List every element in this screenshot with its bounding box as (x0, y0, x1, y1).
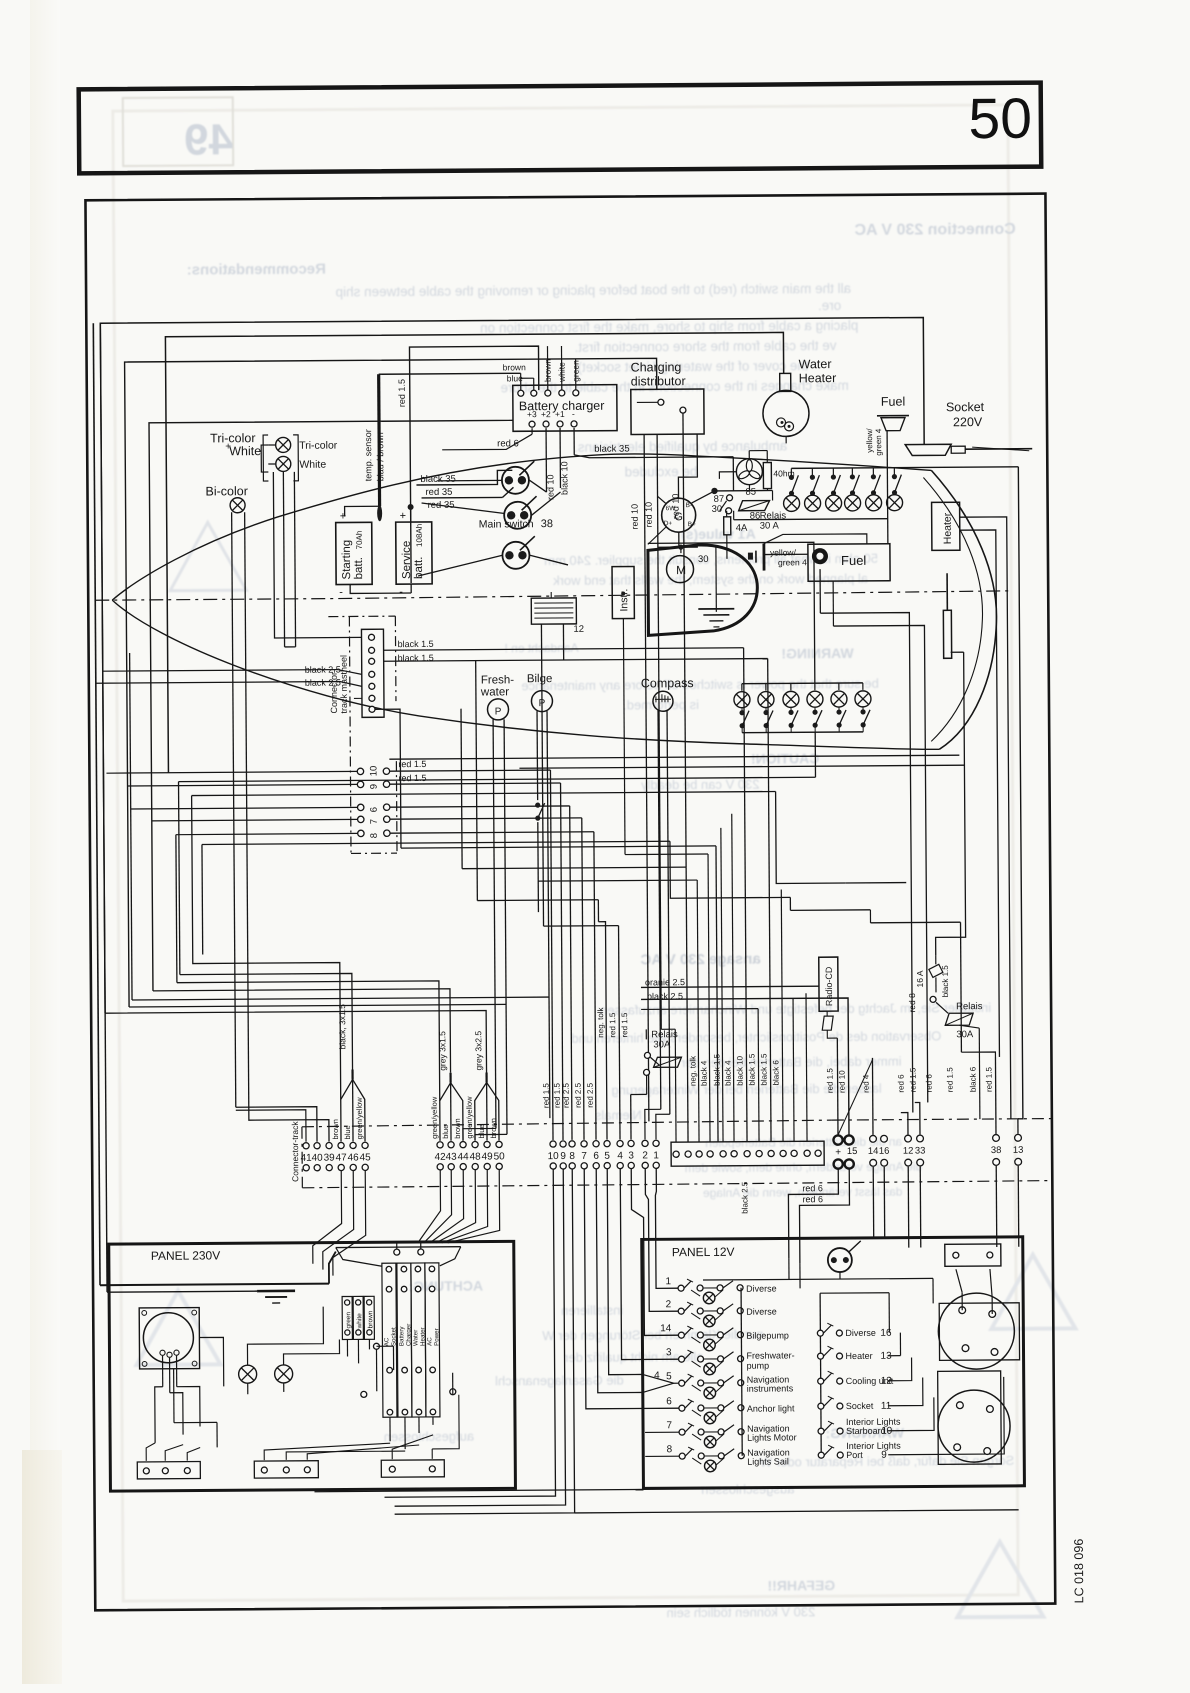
switch blade (824, 1398, 832, 1406)
wire (452, 1373, 454, 1395)
wire lamp tap (692, 1385, 701, 1391)
svg-text:-: - (572, 409, 575, 419)
svg-text:blue: blue (441, 1125, 450, 1139)
wire stub lamp2-5 (838, 683, 840, 690)
wire relay to terminal 3 (631, 1093, 647, 1095)
wire 14 down (872, 1167, 874, 1238)
wire red6 into panel (788, 1258, 790, 1279)
track terminal 48 bottom (472, 1163, 478, 1169)
wire stub lamp1-6 (893, 468, 895, 475)
wire (832, 581, 834, 626)
svg-text:red 10: red 10 (644, 502, 654, 528)
wire (170, 1393, 183, 1435)
svg-text:Port: Port (846, 1450, 863, 1460)
wire (530, 555, 568, 565)
panel lamp 7 (704, 1436, 716, 1448)
compass (653, 691, 673, 711)
lamp deck 5 (866, 495, 882, 511)
wire lamp tap (691, 1290, 700, 1296)
svg-text:M: M (676, 563, 686, 577)
bus pin (737, 1285, 743, 1291)
wire block pin1 up (674, 1029, 677, 1142)
wire (625, 853, 708, 856)
svg-text:Starting: Starting (341, 540, 353, 580)
wire (645, 1029, 647, 1039)
track terminal 41 bottom (303, 1165, 309, 1171)
svg-text:pump: pump (747, 1361, 770, 1371)
svg-text:9: 9 (369, 784, 380, 789)
wire radio fuse to + (827, 1030, 837, 1038)
terminal 38 top (993, 1135, 1000, 1142)
wire 38 down (995, 1166, 998, 1247)
track terminal 6 bottom (593, 1163, 599, 1169)
wire bus2 bottom (129, 1004, 506, 1007)
svg-text:Socket: Socket (946, 400, 985, 414)
svg-text:108Ah: 108Ah (415, 524, 424, 547)
svg-text:+: + (225, 441, 231, 452)
wire strip down (346, 1339, 348, 1356)
switch blade (684, 1328, 691, 1335)
bus pin (738, 1380, 744, 1386)
charger pin +1 (557, 421, 563, 427)
bus pin (738, 1453, 744, 1459)
lamp bi-color (230, 498, 245, 513)
terminal (184, 1468, 190, 1474)
wire green up (575, 359, 577, 390)
svg-text:Socket: Socket (846, 1401, 874, 1411)
switch deck lamp 2 (810, 475, 820, 496)
switch pin (678, 1285, 684, 1291)
battery post (956, 1402, 963, 1409)
svg-text:red 35: red 35 (425, 487, 452, 498)
svg-text:Heater: Heater (846, 1351, 873, 1361)
track terminal 5 bottom (604, 1163, 610, 1169)
wire isolator to tank top (764, 534, 867, 545)
wire lamp tap (715, 1313, 723, 1320)
masthead connector block (361, 629, 384, 717)
switch pin (697, 1332, 703, 1338)
wire black2.5 pin4 (103, 669, 362, 676)
switch deck lamp 5 (871, 474, 881, 495)
wire block pin12 up (806, 993, 807, 1141)
switch pin (717, 1332, 723, 1338)
track terminal 46 top (350, 1142, 356, 1148)
svg-text:WARNING!: WARNING! (781, 645, 853, 662)
boat hull sheer line upper (111, 452, 932, 600)
wire instr down (623, 619, 625, 855)
water heater terminal a (776, 418, 785, 427)
svg-text:85: 85 (745, 487, 756, 498)
terminal (143, 1468, 149, 1474)
wire (392, 1346, 394, 1370)
wire black1.5 pin2 (384, 648, 744, 651)
svg-text:+2: +2 (541, 409, 551, 419)
wire 9 to bottom run (392, 1169, 565, 1506)
wire (703, 1287, 720, 1289)
block pin 3 (696, 1151, 702, 1157)
wire 9 to track (390, 783, 561, 784)
distributor pin 1 (658, 399, 664, 405)
svg-text:Water: Water (799, 357, 832, 371)
wire 33 feed (915, 1102, 920, 1134)
wire 6 (390, 806, 570, 807)
masthead pin 1 (368, 634, 374, 640)
fuel sender rod (946, 573, 948, 610)
track terminal 50 top (496, 1141, 502, 1147)
bus pin (738, 1356, 744, 1362)
connector track dash left (301, 1127, 303, 1188)
wire mid a (461, 709, 462, 869)
bilge float switch (535, 803, 545, 821)
svg-text:50: 50 (494, 1151, 506, 1162)
svg-text:black 6: black 6 (969, 1066, 978, 1092)
svg-text:Charging: Charging (631, 360, 682, 374)
wire feed row 8 (645, 1455, 679, 1457)
wire (661, 1028, 675, 1030)
inlet screw (142, 1361, 147, 1366)
fuse 16A (929, 964, 943, 977)
wire fuel 2 to panel (833, 625, 927, 1103)
fan pin b (418, 1249, 424, 1255)
svg-text:black 10: black 10 (735, 1055, 744, 1085)
svg-text:3: 3 (628, 1150, 634, 1161)
wire chevron a (643, 1374, 679, 1383)
switch cabin lamp 3 (788, 710, 798, 728)
wire (549, 1100, 551, 1118)
switch blade (824, 1373, 832, 1381)
boat transom arc outer (931, 470, 997, 749)
svg-text:45: 45 (360, 1152, 372, 1163)
switch blade (849, 1241, 861, 1252)
terminal 8 left (358, 830, 364, 836)
inlet pin b (167, 1352, 172, 1357)
wire to connector 39 (249, 1107, 329, 1143)
svg-text:brown: brown (367, 1310, 374, 1328)
wire chevron b (643, 1383, 674, 1392)
wire lamp a down (247, 1383, 249, 1394)
track terminal 6 top (593, 1141, 599, 1147)
track terminal 39 bottom (326, 1164, 332, 1170)
svg-text:AC: AC (383, 1337, 390, 1346)
wire lamp row2 bottom bus (742, 731, 863, 734)
wire sender to fuse 16A (934, 652, 966, 955)
wire (107, 1291, 257, 1292)
wire (187, 1448, 200, 1461)
connector track dash bottom (302, 1181, 1052, 1188)
svg-text:black 4: black 4 (723, 1060, 732, 1086)
wire (732, 457, 734, 491)
svg-text:water: water (480, 686, 509, 698)
wire (392, 1435, 433, 1459)
svg-text:Socket: Socket (390, 1327, 397, 1346)
boat hull lower line (112, 594, 939, 755)
wire down terminal 4 (619, 926, 620, 1140)
track terminal 8 bottom (569, 1163, 575, 1169)
svg-text:red 6: red 6 (897, 1074, 906, 1093)
bus pin (738, 1405, 744, 1411)
wire 13 down (1017, 1166, 1020, 1247)
wire (748, 485, 750, 491)
svg-text:black 1.5: black 1.5 (398, 639, 434, 649)
svg-text:1: 1 (665, 1276, 671, 1287)
wire service batt minus (410, 584, 412, 593)
svg-text:oranie 2.5: oranie 2.5 (645, 977, 685, 987)
lamp cabin 4 (807, 691, 823, 707)
wire lamp row 1 bus (791, 467, 1018, 469)
wire (862, 707, 864, 710)
svg-text:+1: +1 (555, 409, 565, 419)
wire (177, 1387, 200, 1427)
wire feed 7 (152, 819, 358, 820)
switch blade (685, 1376, 692, 1383)
wire red6 down a (788, 1169, 839, 1258)
svg-text:2: 2 (642, 1150, 648, 1161)
svg-text:12: 12 (573, 624, 584, 635)
wire sender bracket (951, 651, 964, 653)
wire (956, 1269, 962, 1292)
panel terminal block (945, 1244, 1001, 1266)
boat centerline dash-dot right (338, 591, 1008, 599)
wire black 2.5 to 15 (641, 998, 849, 1136)
plug cable strands (972, 447, 1029, 451)
relay pin 30 (726, 508, 732, 514)
switch deck lamp 4 (850, 474, 860, 495)
svg-text:red 6: red 6 (802, 1183, 823, 1193)
wire compass b (667, 710, 670, 1114)
track terminal 7 top (581, 1141, 587, 1147)
svg-text:50: 50 (968, 87, 1032, 151)
masthead pin 4 (369, 671, 375, 677)
water heater terminal b (785, 422, 794, 431)
wire (726, 511, 728, 517)
switch cabin lamp 2 (763, 710, 773, 728)
wire red 10 down c (683, 413, 686, 867)
relay coil box (653, 1057, 681, 1067)
track terminal 1 top (653, 1140, 659, 1146)
svg-text:White: White (299, 459, 326, 471)
terminal (283, 1467, 289, 1473)
cable track a (449, 1073, 451, 1083)
switch blade 2 (724, 1401, 734, 1408)
terminal 9 right (383, 781, 389, 787)
switch pin (717, 1308, 723, 1314)
svg-text:G: G (674, 511, 683, 523)
wire (648, 527, 666, 544)
relay blade (650, 1057, 659, 1065)
wire masthead lamp common (261, 445, 268, 472)
svg-text:installieren: installieren (561, 1303, 623, 1318)
wire (703, 1310, 720, 1312)
wire down (594, 832, 596, 1140)
wire feed row 7 (645, 1431, 679, 1433)
relay coil diagonal (739, 501, 770, 511)
wire fan left (719, 472, 736, 479)
svg-text:D+: D+ (664, 520, 673, 527)
wire (888, 1355, 901, 1357)
heavy terminal 15 top (844, 1135, 853, 1144)
relay pin (930, 996, 936, 1002)
battery post (962, 1345, 969, 1352)
svg-text:red 8: red 8 (907, 993, 917, 1013)
svg-text:6: 6 (369, 807, 380, 812)
wire (532, 492, 561, 515)
switch pin (678, 1308, 684, 1314)
breaker fan top (336, 1246, 461, 1249)
wire (741, 708, 743, 711)
engine ground bar3 (709, 620, 723, 622)
svg-text:red 1.5: red 1.5 (620, 1012, 629, 1038)
track terminal 41 top (303, 1143, 309, 1149)
svg-text:38: 38 (991, 1145, 1002, 1156)
wire (418, 555, 502, 576)
wire 38 feed (994, 1057, 997, 1134)
track terminal 10 top (550, 1141, 556, 1147)
connector block 13 pins (671, 1141, 824, 1166)
svg-text:46: 46 (348, 1152, 360, 1163)
fan wire green/yellow (353, 1079, 365, 1141)
main switch 3 (502, 542, 529, 569)
wire block pin6 up (732, 814, 734, 1142)
terminal 6 right (383, 804, 389, 810)
wire long run b (519, 765, 964, 768)
wire (431, 1449, 433, 1459)
terminal (261, 1467, 267, 1473)
svg-text:Starboard: Starboard (846, 1426, 886, 1436)
wire down (570, 806, 572, 1140)
switch blade 2 (723, 1328, 733, 1335)
wire black 10 down (559, 428, 561, 488)
panel ground plate (257, 1290, 295, 1293)
track terminal 45 bottom (362, 1164, 368, 1170)
svg-text:4A: 4A (736, 523, 748, 534)
wire (646, 1075, 648, 1094)
svg-text:Recommendations:: Recommendations: (187, 261, 326, 279)
battery post (954, 1444, 961, 1451)
wire stub lamp2-1 (741, 684, 743, 691)
svg-text:Bi-color: Bi-color (205, 484, 247, 498)
switch pin (718, 1453, 724, 1459)
wire (766, 451, 768, 463)
wire (888, 1397, 934, 1430)
wire lamp tap (692, 1410, 701, 1416)
bracket masthead lamps left (263, 435, 268, 481)
cable track b (485, 1073, 487, 1083)
wire mid c (542, 700, 544, 926)
svg-text:Tri-color: Tri-color (299, 440, 338, 452)
block pin 12 (804, 1150, 810, 1156)
engine ground bar2 (703, 614, 729, 616)
engine ground bar4 (713, 626, 719, 628)
wire right bus top (820, 1292, 889, 1294)
switch blade (685, 1352, 692, 1359)
wire lamp tap (716, 1385, 724, 1392)
svg-text:White: White (229, 444, 261, 458)
junction node (711, 488, 717, 494)
svg-text:47: 47 (336, 1152, 348, 1163)
svg-text:49: 49 (184, 115, 233, 164)
svg-text:49: 49 (482, 1151, 494, 1162)
switch blade (685, 1425, 692, 1432)
svg-text:39: 39 (324, 1153, 336, 1164)
svg-text:the cover of the watering / in: the cover of the watering / inlet socket… (577, 358, 808, 375)
wire down to block (768, 659, 771, 1142)
terminal box 2 (254, 1461, 318, 1478)
block pin 13 (815, 1150, 821, 1156)
svg-text:brown: brown (489, 1118, 498, 1138)
battery 1 box (939, 1303, 1019, 1361)
wire 230V feed left a (93, 323, 100, 1285)
junction (678, 545, 683, 550)
battery charger top pin 4 (559, 390, 565, 396)
terminal 33 top (917, 1135, 924, 1142)
switch pin (818, 1353, 824, 1359)
wire engine feed (658, 546, 698, 548)
battery post (986, 1406, 993, 1413)
svg-text:Service: Service (401, 541, 413, 579)
wire run (462, 867, 686, 869)
svg-text:ansage 230 V AC: ansage 230 V AC (640, 951, 761, 969)
svg-text:30 A: 30 A (760, 520, 780, 531)
track terminal 44 top (460, 1142, 466, 1148)
wire lamp tap (715, 1290, 723, 1297)
svg-text:instruments: instruments (747, 1383, 794, 1393)
fan pin a (394, 1249, 400, 1255)
terminal strip green (342, 1296, 352, 1339)
wire red 35 (422, 496, 503, 499)
schematic outer frame (85, 194, 1055, 1611)
wire (155, 1387, 163, 1443)
wire bi-color down 1 (232, 512, 236, 1107)
lamp 230V a (239, 1365, 257, 1383)
wire brown up (546, 346, 548, 390)
svg-text:blue: blue (343, 1125, 352, 1139)
svg-text:+: + (835, 1147, 841, 1158)
track terminal 8 top (569, 1141, 575, 1147)
wire (790, 909, 870, 912)
battery starting batt 70Ah (336, 522, 372, 584)
svg-text:all the main switch (red) to t: all the main switch (red) to the boat be… (336, 281, 852, 300)
track terminal 2 bottom (642, 1162, 648, 1168)
lamp cabin 3 (783, 691, 799, 707)
wire terminal 41 feed (236, 1110, 306, 1142)
wire down to block (716, 846, 718, 1142)
battery post (991, 1349, 998, 1356)
wire strip down (368, 1339, 370, 1349)
switch blade (823, 1348, 831, 1356)
svg-text:LC 018 096: LC 018 096 (1072, 1539, 1086, 1604)
dash-dot masthead zone right (394, 616, 397, 701)
block pin 10 (780, 1150, 786, 1156)
wire to freshwater row (620, 1168, 678, 1359)
terminal (304, 1467, 310, 1473)
svg-text:red 4: red 4 (862, 1074, 871, 1093)
wire (637, 401, 658, 403)
masthead pin 2 (369, 647, 375, 653)
switch pin (698, 1405, 704, 1411)
svg-text:10: 10 (368, 766, 379, 777)
svg-text:Bilge: Bilge (527, 673, 553, 685)
wire (990, 1269, 992, 1297)
switch deck lamp 6 (892, 474, 902, 495)
svg-text:blue: blue (477, 1124, 486, 1138)
svg-text:green/yellow: green/yellow (430, 1096, 439, 1139)
wire feed 10 (106, 771, 357, 773)
track terminal 10 bottom (550, 1163, 556, 1169)
wire (463, 1128, 496, 1140)
terminal 13 bottom (1015, 1158, 1022, 1165)
wire 230V feed left b (100, 323, 107, 1292)
fuel filler cap line (877, 415, 909, 417)
